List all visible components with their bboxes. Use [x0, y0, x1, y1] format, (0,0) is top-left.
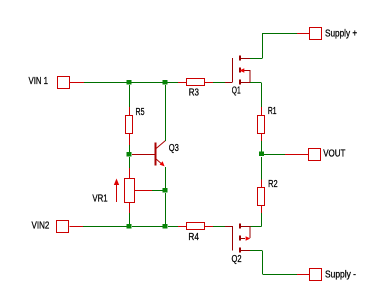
svg-text:R5: R5 — [136, 107, 145, 118]
resistor R3 — [187, 79, 205, 86]
potentiometer VR1 — [125, 179, 135, 203]
svg-text:Q3: Q3 — [169, 143, 179, 154]
resistor R4 — [187, 223, 205, 230]
wire R2 bottom to Q2 drain — [250, 206, 262, 227]
Q2 bulk arrow — [246, 236, 251, 241]
resistor R2 — [258, 188, 265, 206]
wire Q1 source to R1 — [250, 83, 262, 116]
wire Q1 gate pin (red) — [225, 82, 232, 84]
svg-text:VIN2: VIN2 — [32, 221, 50, 232]
svg-text:Q1: Q1 — [232, 86, 241, 97]
svg-text:R3: R3 — [189, 88, 200, 99]
junction node B (165,82) — [163, 80, 168, 85]
wire mid column to bottom net — [165, 193, 167, 224]
port Supply - — [310, 269, 322, 281]
port Supply + — [310, 28, 322, 40]
wire VR1 top lead — [129, 157, 131, 179]
wire VR1 bottom lead — [129, 203, 131, 224]
port VIN2 — [57, 221, 69, 233]
svg-text:R1: R1 — [268, 106, 277, 117]
junction node D (165,190.5) — [163, 188, 168, 193]
svg-text:R4: R4 — [188, 232, 199, 243]
junction node E (129,226) — [127, 224, 132, 229]
svg-text:Supply -: Supply - — [325, 270, 356, 281]
junction node A (129,82) — [127, 80, 132, 85]
svg-text:Q2: Q2 — [232, 254, 242, 265]
port VIN 1 — [58, 77, 70, 89]
wire VOUT horizontal — [264, 154, 308, 156]
transistor Q1 (N-MOSFET) — [233, 56, 251, 85]
wire VR1 wiper — [135, 190, 164, 192]
svg-text:VOUT: VOUT — [323, 149, 345, 160]
wire Q3 collector to top net — [165, 85, 167, 141]
Q1 bulk arrow — [240, 68, 245, 73]
wire R1 bottom to node VOUT — [261, 134, 263, 153]
wire VIN2 net bottom horizontal — [70, 226, 233, 228]
wire R5 leads vertical — [129, 85, 131, 152]
svg-text:VIN 1: VIN 1 — [29, 76, 49, 87]
svg-text:Supply +: Supply + — [325, 29, 357, 40]
port VOUT — [309, 149, 321, 161]
wire Q3 emitter down — [165, 167, 167, 188]
wire R3 pins (red) — [178, 82, 213, 84]
wire Q3 base pin (red) — [132, 154, 155, 156]
wire VIN1 net top horizontal — [84, 82, 225, 84]
junction node VOUT (261,154) — [259, 152, 264, 157]
svg-text:R2: R2 — [268, 179, 278, 190]
wire node VOUT to R2 — [261, 157, 263, 188]
junction node C (129,154.5) — [127, 152, 132, 157]
svg-text:VR1: VR1 — [92, 194, 108, 205]
junction node F (165,226) — [163, 224, 168, 229]
VR1 adjustment arrow — [114, 179, 119, 203]
wire pin stubs top net (red) — [70, 82, 85, 84]
wire Q2 source to Supply- — [250, 251, 309, 275]
wire Q1 drain to Supply+ — [250, 33, 309, 59]
resistor R1 — [258, 116, 265, 134]
transistor Q2 (P-MOSFET) — [233, 224, 251, 253]
Q3 emitter arrow — [160, 161, 165, 166]
transistor Q3 — [156, 140, 166, 165]
resistor R5 — [126, 116, 133, 134]
